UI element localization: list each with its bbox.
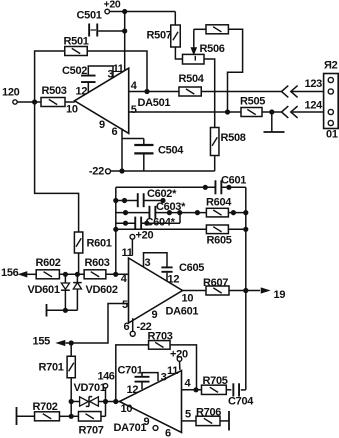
svg-text:Я2: Я2 — [324, 60, 338, 72]
pin 10 label DA701 — [121, 403, 133, 415]
wire vertical C501/pin11 — [124, 12, 126, 71]
svg-text:C501: C501 — [77, 10, 102, 22]
junction dot R604 right — [231, 210, 236, 215]
feedback left bus — [115, 187, 117, 274]
wire chassis to R702 — [17, 415, 35, 417]
pin 11 DA601 with +20 — [122, 230, 154, 260]
svg-text:DA501: DA501 — [138, 97, 171, 109]
svg-text:11: 11 — [113, 63, 124, 75]
resistor R706 — [196, 406, 221, 425]
resistor R603 — [84, 257, 110, 279]
wire R706 to chassis stub — [220, 411, 229, 431]
resistor R701 — [39, 356, 76, 378]
junction dot bus/R605 corner — [113, 227, 118, 232]
pin 9 label DA501 — [99, 119, 105, 131]
capacitor C704 — [228, 383, 254, 407]
svg-text:C602*: C602* — [147, 188, 177, 200]
wire 120 to R503 — [17, 101, 41, 103]
diode VD601 (cathode down) — [28, 274, 70, 310]
pin 12 label DA501 — [76, 85, 88, 97]
op-amp DA501 — [75, 68, 171, 133]
wire pin 6 DA601 to -22 — [124, 318, 133, 333]
resistor (upper, series with wiper) — [206, 25, 228, 34]
svg-text:VD701: VD701 — [74, 382, 106, 394]
svg-text:155: 155 — [33, 336, 51, 348]
wire R504 to contact 123 — [201, 91, 281, 93]
svg-text:11: 11 — [167, 365, 178, 377]
wire R501 left to input node — [35, 51, 65, 102]
junction dot 155/R701 — [69, 340, 74, 345]
junction dot VD701 left — [69, 399, 74, 404]
wire C604 row — [116, 222, 180, 224]
capacitor C502 pins 3-12 — [62, 65, 114, 93]
svg-text:6: 6 — [165, 427, 171, 438]
wire R703 left branch — [116, 345, 149, 402]
svg-text:C601: C601 — [221, 175, 246, 187]
svg-text:R504: R504 — [179, 73, 205, 85]
connector pin chevrons row 124 — [282, 106, 298, 118]
resistor R507 — [147, 25, 181, 47]
wire input bus down-jog to R601 — [35, 102, 79, 233]
wire R507 bottom to pot R506 — [175, 47, 182, 59]
pin 6 label DA701 — [165, 427, 171, 438]
svg-text:3: 3 — [161, 372, 167, 384]
svg-text:R703: R703 — [148, 331, 173, 343]
chassis stub below diodes — [47, 304, 78, 317]
right feedback bus — [245, 187, 247, 390]
svg-text:DA701: DA701 — [114, 422, 147, 434]
svg-text:R506: R506 — [200, 43, 225, 55]
pin 4 label DA501 — [131, 80, 138, 92]
svg-text:R706: R706 — [196, 406, 221, 418]
resistor R504 — [179, 73, 205, 96]
svg-text:C704: C704 — [228, 396, 254, 408]
wire VD701-R707 left link — [70, 402, 72, 417]
junction dot C602 a — [122, 198, 127, 203]
pin 10 label DA501 — [66, 104, 78, 116]
svg-text:10: 10 — [66, 104, 78, 116]
svg-text:11: 11 — [122, 247, 133, 259]
junction dot output/right bus — [243, 288, 248, 293]
svg-text:C605: C605 — [179, 262, 204, 274]
junction dot VD602 tap — [75, 272, 80, 277]
wire R703 right branch — [170, 345, 197, 390]
wire wiper to upper resistor — [194, 28, 206, 30]
wire node to pin 10 DA701 — [106, 401, 120, 403]
junction dot C604 a — [123, 221, 128, 226]
junction dot ground tap — [269, 109, 274, 114]
wire R501 right to pin4 node — [87, 51, 147, 92]
wire -22 row — [111, 170, 215, 172]
svg-text:10: 10 — [182, 293, 194, 305]
wire R702 to node — [59, 415, 71, 417]
svg-text:R507: R507 — [147, 29, 172, 41]
svg-text:12: 12 — [76, 85, 88, 97]
socket hole 2 — [328, 89, 333, 94]
pin 11 label DA501 — [113, 63, 124, 75]
junction dot bus/C602 — [113, 198, 118, 203]
junction dot C602 b — [160, 198, 165, 203]
svg-text:9: 9 — [144, 416, 150, 428]
wire R507 top lead — [174, 12, 176, 26]
wire +20 rail to R507 — [110, 11, 176, 13]
connector socket ЯЗ2 box — [324, 60, 339, 141]
svg-text:R607: R607 — [203, 277, 228, 289]
resistor R702 — [33, 401, 60, 421]
wire C602 row — [116, 200, 163, 202]
wire R603 to pin 4 DA601 — [106, 273, 129, 275]
junction dot R501/pin4 — [144, 89, 149, 94]
wire R604 to right bus — [228, 212, 245, 214]
capacitor C601 — [215, 175, 246, 195]
svg-text:12: 12 — [168, 274, 180, 286]
resistor R705 — [202, 375, 228, 395]
wire R601 bottom — [78, 253, 80, 274]
junction dot C603 extra — [167, 210, 172, 215]
wire upper resistor right jog down — [228, 29, 243, 112]
wire R602-R603 segment — [59, 273, 84, 275]
resistor R508 — [210, 128, 245, 156]
svg-text:12: 12 — [127, 384, 139, 396]
pin 11 DA701 with +20 — [167, 348, 188, 377]
svg-text:R701: R701 — [39, 361, 64, 373]
wire R503 to pin 10 — [65, 101, 75, 103]
svg-text:R602: R602 — [36, 257, 61, 269]
junction dot x227/R505 row — [225, 109, 230, 114]
capacitor C501 — [77, 10, 125, 37]
resistor R604 — [206, 197, 232, 217]
wire pin 5 DA601 to 155 row — [66, 304, 129, 344]
wire R705 to C704 — [226, 389, 231, 391]
wire C604-C603 link — [179, 213, 181, 224]
socket hole 3 — [328, 109, 333, 114]
svg-text:5: 5 — [185, 408, 191, 420]
terminal arrow 19 — [261, 288, 285, 301]
resistor R703 — [148, 331, 173, 350]
resistor R505 — [240, 95, 265, 116]
junction dot C601 left — [203, 185, 208, 190]
wire 156 to R602 — [27, 273, 37, 275]
pin 12 label DA701 — [127, 384, 139, 396]
wire pin 4 DA701 row — [182, 378, 202, 390]
wire R701 bottom lead — [70, 377, 72, 401]
junction dot feedback bus/pin4 — [113, 272, 118, 277]
svg-text:VD602: VD602 — [86, 284, 118, 296]
svg-text:R604: R604 — [206, 197, 232, 209]
wire 146 to node — [105, 388, 107, 402]
svg-text:+20: +20 — [136, 230, 154, 242]
junction dot C601 right — [226, 185, 231, 190]
junction dot VD601 tap — [63, 272, 68, 277]
wire C601 row — [116, 186, 246, 188]
svg-text:R503: R503 — [42, 85, 67, 97]
junction dot C604 b — [144, 221, 149, 226]
svg-text:DA601: DA601 — [166, 306, 199, 318]
socket hole 1 — [328, 77, 333, 82]
svg-text:124: 124 — [305, 99, 324, 111]
svg-text:R505: R505 — [240, 95, 265, 107]
pin labels DA601 other — [152, 274, 194, 321]
wire pin 4 row — [129, 91, 180, 93]
svg-text:+20: +20 — [104, 0, 121, 10]
capacitor C602* — [138, 188, 177, 207]
svg-text:5: 5 — [131, 104, 137, 116]
wire pin 6 DA501 — [112, 126, 123, 171]
junction dot bus/R604 — [243, 210, 248, 215]
resistor R602 — [36, 257, 61, 279]
terminal -22 DA501 — [89, 166, 111, 178]
terminal 120 — [2, 86, 20, 104]
junction dot bus/R605 — [243, 227, 248, 232]
op-amp DA601 — [129, 258, 199, 323]
svg-text:-22: -22 — [89, 166, 104, 178]
svg-text:R605: R605 — [207, 235, 232, 247]
wire C603 row — [116, 212, 207, 214]
svg-text:10: 10 — [121, 403, 133, 415]
svg-text:R705: R705 — [203, 375, 228, 387]
svg-text:6: 6 — [124, 321, 130, 333]
connector pin chevrons row 123 — [282, 86, 298, 98]
svg-text:R508: R508 — [221, 132, 246, 144]
wire contact 123 to socket — [291, 78, 328, 92]
svg-text:3: 3 — [145, 257, 151, 269]
resistor R605 — [206, 225, 231, 247]
junction dot VD701 right — [103, 399, 108, 404]
junction dot R707 left — [69, 414, 74, 419]
terminal 146 — [98, 371, 115, 388]
pin labels DA601 left — [121, 273, 128, 311]
svg-text:6: 6 — [112, 126, 118, 138]
terminal arrow 155 — [33, 336, 65, 348]
ground (chassis) under R505 — [264, 112, 285, 132]
chassis stub R702 — [16, 407, 18, 425]
svg-text:9: 9 — [99, 119, 105, 131]
terminal -22 DA601 — [130, 321, 151, 336]
svg-text:9: 9 — [152, 309, 158, 321]
wire R505 to contact 124 — [262, 111, 281, 113]
pin 9 DA701 with terminal — [144, 416, 158, 430]
svg-text:120: 120 — [2, 86, 20, 98]
svg-text:5: 5 — [122, 299, 128, 311]
junction dot pin6/-22 — [119, 168, 124, 173]
diode VD602 (cathode up) — [73, 274, 118, 310]
svg-text:R707: R707 — [79, 425, 104, 437]
wire pot right to R508 top — [204, 59, 215, 128]
resistor R601 — [74, 232, 111, 253]
wire R508 bottom to -22 row — [214, 155, 216, 171]
svg-text:+20: +20 — [170, 348, 188, 360]
capacitor C504 — [122, 139, 184, 172]
svg-text:C604*: C604* — [146, 217, 176, 229]
terminal +20 (power) — [104, 0, 121, 14]
resistor R506 (trimmer body) — [183, 54, 205, 64]
resistor R607 — [203, 277, 229, 295]
junction dot node +20/C501 — [122, 9, 127, 14]
diode VD701 (bidirectional zener) — [71, 382, 106, 406]
socket hole 4 — [328, 120, 333, 125]
resistor R707 — [78, 412, 103, 437]
junction dot diode common — [63, 308, 68, 313]
capacitor C701 pins 3-12 — [118, 365, 167, 390]
capacitor C605 pins 3-12 — [144, 253, 205, 281]
wire C704 to right bus — [241, 389, 246, 391]
resistor R501 — [64, 36, 89, 56]
svg-text:156: 156 — [1, 267, 19, 279]
junction dot C603 a — [123, 210, 128, 215]
svg-text:123: 123 — [305, 78, 323, 90]
svg-text:C502: C502 — [62, 65, 87, 77]
wire pin 5 row — [129, 111, 242, 113]
svg-text:VD601: VD601 — [28, 284, 60, 296]
wire pin 5 DA701 row — [182, 408, 197, 421]
svg-text:C701: C701 — [118, 365, 143, 377]
svg-text:19: 19 — [274, 289, 286, 301]
op-amp DA701 — [114, 371, 182, 435]
svg-text:R501: R501 — [64, 36, 89, 48]
wire R707 leads — [71, 415, 105, 417]
wire R701 top lead — [70, 343, 72, 357]
terminal arrow 156 — [1, 267, 27, 279]
wire R707 right link up — [105, 402, 107, 417]
svg-text:01: 01 — [326, 129, 338, 141]
svg-text:3: 3 — [108, 69, 114, 81]
capacitor C604* — [135, 217, 175, 229]
wire R605 row — [116, 228, 246, 230]
svg-text:R601: R601 — [87, 238, 112, 250]
capacitor C603* — [149, 201, 186, 219]
resistor R503 — [41, 85, 67, 107]
wiper arrow R506 — [191, 29, 225, 55]
svg-text:R702: R702 — [33, 401, 58, 413]
pin 5 label DA501 — [131, 104, 137, 116]
svg-text:C504: C504 — [158, 145, 184, 157]
junction dot input node — [32, 99, 37, 104]
junction dot C501 right — [122, 28, 127, 33]
junction dot C603 b — [177, 210, 182, 215]
svg-text:C603*: C603* — [156, 201, 186, 213]
svg-text:R603: R603 — [85, 257, 110, 269]
svg-text:146: 146 — [98, 371, 115, 383]
junction dot pin4/R703 — [193, 387, 198, 392]
junction dot C603 c — [195, 210, 200, 215]
wire DA601 output row — [183, 290, 261, 292]
junction dot R703 branch — [113, 399, 118, 404]
wire contact 124 to socket — [291, 99, 328, 112]
